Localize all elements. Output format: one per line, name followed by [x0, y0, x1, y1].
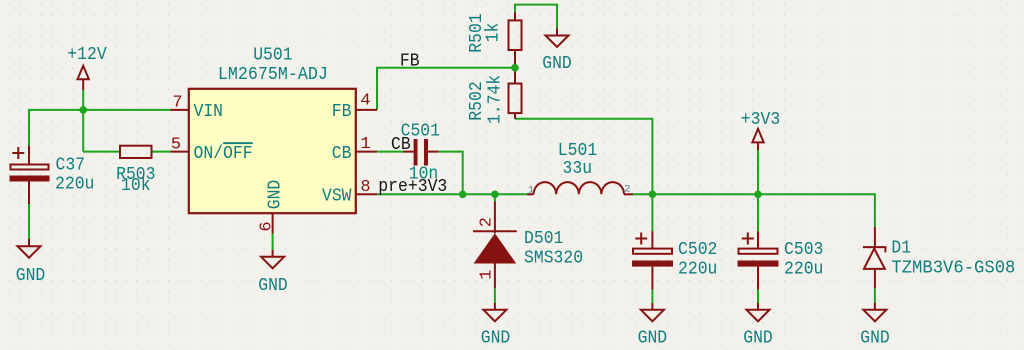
pin name GND rotated [266, 180, 286, 210]
wire D501 anode to ground [494, 288, 496, 303]
label +3V3 [741, 110, 780, 130]
svg-text:ON/OFF: ON/OFF [194, 144, 253, 164]
label GND below C37 [16, 266, 46, 286]
svg-text:C503: C503 [784, 240, 823, 260]
ground below C37 [18, 239, 41, 258]
pin name VIN [194, 102, 224, 122]
power symbol +3V3 [752, 129, 763, 150]
svg-text:GND: GND [542, 54, 572, 74]
resistor R503 [120, 146, 152, 158]
power symbol +12V [78, 66, 89, 90]
svg-text:6: 6 [258, 221, 277, 231]
pin 4 stub [356, 109, 378, 111]
junction node C503/+3V3 [754, 191, 762, 199]
zener diode D1 TZMB3V6-GS08 [863, 227, 885, 288]
wire C502 bottom to ground [651, 290, 653, 303]
label L501 value 33u [563, 159, 593, 179]
svg-text:FB: FB [400, 52, 420, 72]
pin number 2 of D501 rotated [477, 217, 496, 227]
pin 5 stub [171, 151, 190, 153]
capacitor C37 [10, 146, 50, 204]
junction node C501 to VSW [459, 191, 467, 199]
svg-text:+12V: +12V [67, 45, 107, 65]
wire C37 bottom to ground [28, 204, 30, 239]
svg-text:+3V3: +3V3 [741, 110, 780, 130]
label LM2675M-ADJ [218, 65, 328, 85]
junction node FB divider [511, 64, 519, 72]
svg-text:GND: GND [743, 329, 773, 349]
svg-text:220u: 220u [678, 260, 717, 280]
pin name CB [332, 144, 352, 164]
svg-text:2: 2 [477, 217, 496, 227]
label R503 [116, 165, 155, 185]
wire +12V junction down to ON/OFF row [82, 90, 84, 152]
resistor R502 [509, 68, 522, 119]
svg-text:VIN: VIN [194, 102, 224, 122]
wire FB net from pin 4 up to divider [377, 68, 515, 110]
label R503 value 10k [121, 176, 151, 196]
ground below pin 6 [261, 250, 284, 268]
svg-text:pre+3V3: pre+3V3 [378, 177, 447, 197]
wire D1 anode to ground [874, 288, 876, 303]
label R502 value 1.74k rotated [486, 75, 506, 124]
diode D501 SMS320 [473, 202, 517, 289]
junction node D501 [491, 191, 499, 199]
label C502 value 220u [678, 260, 717, 280]
pin number 8 [360, 178, 370, 197]
svg-text:FB: FB [332, 102, 352, 122]
label R502 rotated [467, 81, 487, 120]
wire +3V3 stem [757, 150, 759, 194]
ground below D501 [483, 303, 506, 321]
label R501 value 1k rotated [484, 23, 504, 43]
wire VSW row pin 8 to L501 [377, 193, 527, 195]
net label CB [391, 135, 411, 155]
label C37 value 220u [55, 174, 94, 194]
svg-text:10k: 10k [121, 176, 151, 196]
wire C37 top stem [28, 109, 30, 146]
wire ON/OFF row to R503 left [83, 151, 120, 153]
wire C502 top stem [651, 194, 653, 231]
wire VIN horizontal from C37 corner to pin 7 [29, 109, 171, 111]
ground right of R501 [546, 29, 569, 48]
resistor R501 [509, 13, 522, 68]
pin number 1 of L501 [528, 185, 534, 197]
net label FB [400, 52, 420, 72]
svg-text:2: 2 [624, 184, 630, 196]
svg-text:CB: CB [332, 144, 352, 164]
pin number 2 of L501 [624, 184, 630, 196]
ground below C502 [641, 303, 664, 321]
label D501 [524, 229, 563, 249]
wire R502 bottom over to output node [515, 119, 652, 195]
label C503 [784, 240, 823, 260]
pin number 1 of D501 rotated [477, 269, 496, 279]
ground below D1 [863, 303, 886, 321]
label GND below pin 6 [258, 276, 288, 296]
label GND below C503 [743, 329, 773, 349]
pin number 5 [171, 135, 181, 154]
svg-text:GND: GND [266, 180, 286, 210]
label C37 [56, 155, 86, 175]
svg-text:U501: U501 [253, 45, 292, 65]
svg-text:1: 1 [477, 269, 496, 279]
svg-text:L501: L501 [558, 141, 597, 161]
svg-text:VSW: VSW [322, 187, 352, 207]
label GND below D1 [860, 329, 890, 349]
svg-text:TZMB3V6-GS08: TZMB3V6-GS08 [891, 258, 1015, 278]
IC U501 LM2675M-ADJ body [189, 89, 356, 213]
capacitor C503 [738, 231, 779, 290]
label L501 [558, 141, 597, 161]
svg-text:4: 4 [360, 92, 370, 111]
wire C503 top stem [757, 194, 759, 231]
svg-text:GND: GND [481, 329, 511, 349]
svg-text:1.74k: 1.74k [486, 75, 506, 124]
svg-text:8: 8 [360, 178, 370, 197]
label GND below C502 [638, 329, 668, 349]
net label pre+3V3 [378, 177, 447, 197]
svg-text:C502: C502 [678, 240, 717, 260]
label C502 [678, 240, 717, 260]
svg-text:7: 7 [172, 94, 182, 113]
svg-text:220u: 220u [55, 174, 94, 194]
label C503 value 220u [784, 260, 823, 280]
junction node C502 [649, 191, 657, 199]
pin name VSW [322, 187, 352, 207]
pin name ON/OFF with overline [194, 142, 253, 164]
svg-text:C37: C37 [56, 155, 86, 175]
svg-text:LM2675M-ADJ: LM2675M-ADJ [218, 65, 328, 85]
svg-text:1k: 1k [484, 23, 504, 43]
label D1 value TZMB3V6-GS08 [891, 258, 1015, 278]
pin number 4 [360, 92, 370, 111]
svg-text:GND: GND [638, 329, 668, 349]
label GND right of R501 [542, 54, 572, 74]
svg-text:GND: GND [16, 266, 46, 286]
svg-text:SMS320: SMS320 [524, 249, 583, 269]
pin number 1 [360, 135, 370, 154]
label D501 value SMS320 [524, 249, 583, 269]
svg-text:R502: R502 [467, 81, 487, 120]
svg-text:220u: 220u [784, 260, 823, 280]
wire R503 right to pin 5 [152, 151, 171, 153]
capacitor C501 [403, 139, 439, 166]
pin number 6 rotated [258, 221, 277, 231]
label R501 rotated [467, 13, 487, 52]
svg-text:GND: GND [258, 276, 288, 296]
label C501 [401, 122, 440, 142]
label GND below D501 [481, 329, 511, 349]
pin number 7 [172, 94, 182, 113]
pin 6 stub [272, 213, 274, 234]
pin 8 stub [356, 193, 378, 195]
svg-text:5: 5 [171, 135, 181, 154]
svg-text:33u: 33u [563, 159, 593, 179]
label C501 value 10n [409, 164, 439, 184]
wire D501 cathode stub [494, 194, 496, 201]
wire pin 6 to ground [272, 234, 274, 251]
pin name FB [332, 102, 352, 122]
label D1 [891, 239, 911, 259]
wire L501 output row to D1 branch [633, 194, 875, 227]
label +12V [67, 45, 107, 65]
wire C501 right side down to VSW net [439, 152, 463, 195]
label U501 [253, 45, 292, 65]
pin 7 stub [171, 109, 190, 111]
svg-text:GND: GND [860, 329, 890, 349]
svg-text:D501: D501 [524, 229, 563, 249]
svg-text:1: 1 [360, 135, 370, 154]
svg-text:CB: CB [391, 135, 411, 155]
svg-text:D1: D1 [891, 239, 911, 259]
inductor L501 [527, 182, 633, 194]
capacitor C502 [632, 231, 673, 290]
ground below C503 [747, 303, 770, 321]
wire pin 1 CB to capacitor C501 [377, 151, 403, 153]
wire C503 bottom to ground [757, 290, 759, 303]
junction node at +12V/VIN [79, 106, 87, 114]
wire R501 top to ground symbol [515, 5, 557, 29]
svg-text:1: 1 [528, 185, 534, 197]
pin 1 stub [356, 151, 378, 153]
